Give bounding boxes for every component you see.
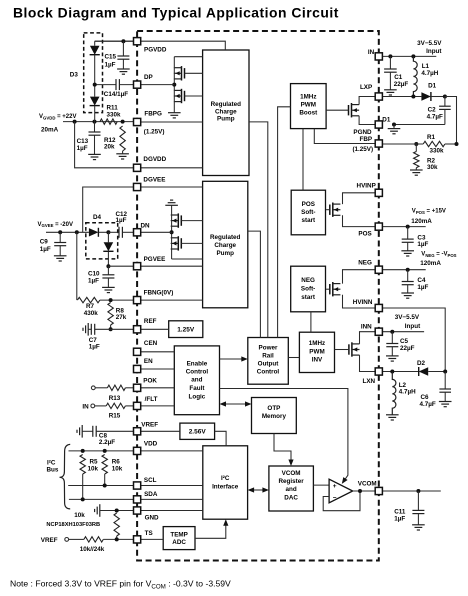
svg-text:VGVEE = -20V: VGVEE = -20V: [38, 222, 73, 228]
capacitor C4: [407, 270, 409, 282]
svg-text:CEN: CEN: [144, 340, 158, 347]
svg-text:Register: Register: [278, 478, 304, 485]
ground below C5: [386, 355, 399, 357]
wire FBPG pin to charge pump 1: [137, 121, 203, 123]
ground below L2: [386, 414, 399, 416]
transistor Q3 charge pump 2 upper FET: [177, 213, 179, 227]
node thermistor top: [115, 509, 119, 513]
svg-text:FBP: FBP: [359, 136, 372, 143]
wire HVINN to negative output: [379, 308, 445, 372]
svg-text:Interface: Interface: [212, 483, 239, 490]
wire Q6 source to POS: [343, 215, 379, 226]
wire Q8 source to LXN: [360, 355, 379, 371]
svg-text:120mA: 120mA: [420, 260, 441, 267]
capacitor C12 on DN line: [108, 231, 119, 233]
wire 2.56V reference to I2C interface: [215, 431, 227, 446]
node DN junction: [170, 230, 174, 234]
wire DP FET common rail: [173, 57, 175, 113]
wire VDD pin to I2C interface: [137, 450, 203, 452]
ground below C9: [54, 255, 67, 257]
svg-text:DGVDD: DGVDD: [143, 156, 166, 163]
svg-text:Pump: Pump: [217, 116, 235, 123]
svg-text:4.7µH: 4.7µH: [399, 388, 416, 395]
svg-text:start: start: [301, 294, 316, 301]
inductor L2: [392, 372, 396, 415]
wire VREF pin to 2.56V block: [137, 430, 180, 432]
wire power rail control to PWM INV: [288, 357, 299, 359]
pin GND: [134, 507, 141, 514]
node FBP-R1 junction: [414, 142, 418, 146]
svg-text:PGVEE: PGVEE: [144, 256, 166, 263]
svg-text:NEG: NEG: [301, 277, 315, 284]
svg-text:−: −: [333, 495, 337, 502]
svg-text:VREF: VREF: [41, 537, 58, 544]
diode D3a: [94, 41, 96, 46]
svg-text:VNEG = -VPOS: VNEG = -VPOS: [421, 252, 456, 258]
svg-text:SCL: SCL: [144, 477, 157, 484]
svg-text:DAC: DAC: [284, 494, 298, 501]
svg-text:D3: D3: [70, 72, 79, 79]
svg-text:Input: Input: [405, 323, 421, 330]
svg-text:30k: 30k: [427, 164, 438, 171]
svg-text:1µF: 1µF: [89, 343, 100, 350]
wire DGVDD pin to charge pump 1: [137, 167, 203, 169]
diode D1: [421, 92, 431, 100]
resistor R6 pull-up: [102, 455, 107, 475]
wire C2 bottom to PGND node: [394, 124, 445, 126]
svg-text:R1: R1: [427, 134, 436, 141]
svg-text:IN: IN: [368, 49, 375, 56]
block OTP Memory: [252, 398, 297, 434]
node C5 top: [390, 330, 394, 334]
svg-text:POS: POS: [358, 230, 371, 237]
wire enable logic to power rail control (arrow): [220, 358, 242, 360]
svg-text:4.7µF: 4.7µF: [420, 401, 436, 408]
pin /FLT: [134, 402, 141, 409]
wire INN rail: [379, 331, 424, 333]
svg-text:OTP: OTP: [267, 405, 280, 412]
wire VCOM output: [379, 490, 441, 492]
svg-text:3V−5.5V: 3V−5.5V: [417, 40, 442, 47]
pin VDD: [134, 447, 141, 454]
wire Q5 drain to LXP: [359, 97, 379, 105]
pin INN: [375, 328, 382, 335]
node D3 mid junction: [93, 83, 97, 87]
node L1 bottom junction: [411, 95, 415, 99]
diode D2 (points left): [419, 367, 429, 375]
svg-text:1µF: 1µF: [417, 241, 428, 248]
svg-text:EN: EN: [144, 358, 153, 365]
svg-text:PGVDD: PGVDD: [144, 46, 167, 53]
svg-text:20mA: 20mA: [41, 126, 59, 133]
block VCOM Register and DAC: [269, 466, 314, 511]
svg-text:NEG: NEG: [358, 259, 372, 266]
svg-text:1µF: 1µF: [394, 515, 405, 522]
wire NEG to Q7 drain: [343, 270, 379, 284]
wire VGVDD +22V rail: [63, 121, 137, 123]
svg-text:VCOM: VCOM: [282, 470, 301, 477]
capacitor C6: [444, 372, 446, 390]
svg-text:20k: 20k: [104, 143, 115, 150]
node R8 top: [109, 298, 113, 302]
node C10 junction: [106, 264, 110, 268]
svg-text:2.56V: 2.56V: [189, 429, 207, 436]
svg-text:PGND: PGND: [353, 129, 372, 136]
op-amp U2 VCOM amplifier: [329, 479, 353, 503]
svg-text:start: start: [301, 217, 316, 224]
wire LXP to D1: [379, 96, 422, 98]
svg-text:DGVEE: DGVEE: [143, 176, 165, 183]
node R1 right junction: [455, 142, 459, 146]
resistor R5 pull-up: [80, 455, 85, 475]
wire DGVEE wrap-around: [83, 187, 137, 232]
svg-text:1.25V: 1.25V: [177, 327, 195, 334]
capacitor C14 on DP line: [95, 84, 116, 86]
wire GND line with ground: [99, 504, 101, 517]
svg-text:(1.25V): (1.25V): [144, 129, 165, 136]
pin LXP: [375, 93, 382, 100]
capacitor C5: [391, 332, 393, 344]
pin HVINP: [375, 189, 382, 196]
node R8 bottom: [109, 327, 113, 331]
svg-text:1µF: 1µF: [105, 62, 116, 69]
transistor Q2 charge pump 1 lower FET: [181, 89, 183, 103]
svg-text:22µF: 22µF: [400, 345, 415, 352]
ground below Q2: [168, 112, 181, 114]
transistor Q1 charge pump 1 upper FET: [181, 66, 183, 80]
pin SDA: [134, 496, 141, 503]
node thermistor bottom: [115, 537, 119, 541]
svg-text:10k: 10k: [112, 466, 123, 473]
pin FBPG: [134, 118, 141, 125]
wire charge pump 2 output to power rail control: [248, 231, 261, 337]
resistor R16 10k//24k: [84, 537, 103, 542]
svg-text:3V−5.5V: 3V−5.5V: [395, 314, 420, 321]
svg-text:R5: R5: [90, 459, 99, 466]
wire IN rail: [379, 55, 437, 57]
wire R7 to FBNG pin: [100, 299, 137, 301]
svg-text:I²C: I²C: [221, 475, 230, 482]
block 1MHz PWM INV: [299, 332, 334, 372]
block regulated charge pump 2 (U1b): [203, 181, 248, 307]
svg-text:POS: POS: [302, 201, 315, 208]
svg-text:Regulated: Regulated: [211, 101, 242, 108]
node C13/D3 junction: [93, 120, 97, 124]
svg-text:VCOM: VCOM: [358, 481, 377, 488]
node C11 top: [416, 489, 420, 493]
diode D3b: [90, 97, 100, 106]
ground above Q3 (inverted): [165, 204, 178, 206]
pin DN: [134, 229, 141, 236]
svg-text:Rail: Rail: [262, 353, 274, 360]
svg-text:ADC: ADC: [172, 539, 186, 546]
svg-text:Memory: Memory: [262, 413, 287, 420]
svg-text:TS: TS: [145, 530, 153, 537]
svg-text:1µF: 1µF: [40, 246, 51, 253]
svg-text:4.7µF: 4.7µF: [427, 113, 443, 120]
pin DP: [134, 81, 141, 88]
svg-text:1MHz: 1MHz: [300, 93, 316, 100]
wire SDA pin to I2C interface: [137, 498, 203, 500]
svg-text:Soft-: Soft-: [301, 209, 315, 216]
wire Q7 source to HVINN: [343, 295, 379, 308]
capacitor C1: [388, 54, 392, 58]
svg-text:C15: C15: [105, 54, 117, 61]
svg-text:INV: INV: [312, 356, 323, 363]
node DGVDD branch: [73, 120, 77, 124]
pin SCL: [134, 482, 141, 489]
thermistor RT1 NCP18XH103F03RB: [114, 513, 119, 536]
svg-text:C9: C9: [40, 239, 49, 246]
diode D4b vertical: [107, 232, 109, 242]
ground below C1: [384, 89, 397, 91]
wire VCOM register to amplifier input: [313, 484, 329, 486]
pin VCOM: [375, 487, 382, 494]
wire CEN pin to enable logic: [137, 351, 174, 353]
pin PGVEE: [134, 263, 141, 270]
pin NEG: [375, 266, 382, 273]
svg-text:VPOS = +15V: VPOS = +15V: [412, 209, 446, 215]
pin DGVEE: [134, 183, 141, 190]
wire DP pin to FET node: [137, 84, 174, 86]
node DP junction: [172, 83, 176, 87]
svg-text:and: and: [191, 377, 202, 384]
pin POS: [375, 223, 382, 230]
svg-text:Pump: Pump: [216, 250, 234, 257]
wire PWM boost to power rail control: [278, 107, 291, 338]
svg-text:Output: Output: [258, 361, 280, 368]
wire OTP memory to VCOM register (arrow): [274, 434, 291, 462]
block Enable Control and Fault Logic: [174, 346, 219, 415]
svg-text:1µF: 1µF: [116, 217, 127, 224]
block Power Rail Output Control: [248, 338, 288, 385]
resistor R7: [76, 232, 78, 300]
svg-text:Charge: Charge: [214, 242, 236, 249]
wire INN to Q8 drain: [360, 332, 379, 344]
svg-text:DN: DN: [141, 223, 151, 230]
capacitor C11: [417, 491, 419, 510]
svg-text:/FLT: /FLT: [145, 396, 158, 403]
svg-text:22µF: 22µF: [394, 81, 409, 88]
capacitor C7 on REF line: [87, 323, 89, 336]
wire POS output: [379, 226, 426, 228]
node PGND junction: [392, 123, 396, 127]
node R5 bottom: [81, 497, 85, 501]
wire /FLT pin to enable logic: [137, 405, 174, 407]
ground below C10: [102, 286, 115, 288]
resistor R15: [106, 403, 125, 408]
wire VDD rail from brace: [69, 450, 138, 452]
svg-text:Fault: Fault: [189, 385, 205, 392]
svg-text:Note : Forced 3.3V to VREF pin: Note : Forced 3.3V to VREF pin for VCOM …: [10, 579, 231, 591]
svg-text:27k: 27k: [116, 314, 127, 321]
svg-text:4.7µH: 4.7µH: [421, 70, 438, 77]
wire SCL pin to I2C interface: [137, 485, 203, 487]
wire FBNG pin to charge pump 2: [137, 299, 203, 301]
svg-text:Control: Control: [257, 369, 280, 376]
wire FBP to divider: [379, 143, 423, 145]
svg-text:IN: IN: [82, 404, 89, 411]
pin REF: [134, 326, 141, 333]
svg-text:Charge: Charge: [215, 108, 237, 115]
block TEMP ADC: [163, 527, 195, 550]
wire boost to POS soft-start: [302, 129, 304, 191]
wire REF pin to 1.25V block: [137, 328, 169, 330]
svg-text:Control: Control: [186, 368, 209, 375]
svg-text:REF: REF: [144, 318, 157, 325]
terminal /FLT input: [91, 404, 95, 408]
wire boost to FBP pin: [314, 129, 379, 144]
wire PGVDD to charge pump 1 top: [95, 41, 226, 50]
capacitor C13: [94, 122, 96, 132]
resistor R13: [107, 385, 125, 390]
transistor Q4 charge pump 2 lower FET: [177, 236, 179, 250]
svg-text:NCP18XH103F03RB: NCP18XH103F03RB: [46, 522, 100, 528]
diode pair D3 dashed box: [84, 33, 103, 113]
svg-text:DP: DP: [144, 74, 153, 81]
node R12 top: [121, 120, 125, 124]
wire DN FET common rail: [171, 205, 173, 259]
wire charge pump 1 output to power rail control: [249, 122, 268, 338]
pin FBNG(0V): [134, 297, 141, 304]
ground at PGND: [393, 125, 395, 129]
terminal POK test point: [91, 386, 95, 390]
svg-text:10k//24k: 10k//24k: [80, 546, 105, 553]
svg-text:PWM: PWM: [301, 101, 316, 108]
pin FBP: [375, 140, 382, 147]
svg-text:D2: D2: [417, 360, 426, 367]
svg-text:D1: D1: [428, 83, 437, 90]
resistor R2: [415, 144, 417, 152]
svg-text:Boost: Boost: [299, 110, 318, 117]
svg-text:and: and: [285, 486, 296, 493]
pin PGND: [375, 121, 382, 128]
svg-text:330k: 330k: [107, 111, 122, 118]
wire SDA line: [69, 498, 137, 500]
node C4 top: [406, 268, 410, 272]
resistor R12: [120, 126, 125, 151]
pin DGVDD: [134, 164, 141, 171]
capacitor C3: [407, 227, 409, 240]
node L2 top: [390, 370, 394, 374]
svg-text:10k: 10k: [74, 512, 85, 519]
transistor Q6 POS switch: [332, 203, 334, 217]
node op-amp output junction: [358, 489, 362, 493]
svg-text:FBNG(0V): FBNG(0V): [144, 290, 174, 297]
ground below C3: [401, 250, 414, 252]
wire TS pin to TEMP ADC: [137, 538, 163, 540]
svg-text:FBPG: FBPG: [144, 111, 162, 118]
wire Q5 source to PGND: [359, 116, 379, 125]
svg-text:Bus: Bus: [47, 467, 59, 474]
pin CEN: [134, 348, 141, 355]
svg-text:TEMP: TEMP: [170, 532, 188, 539]
svg-text:+: +: [333, 483, 337, 490]
svg-text:2.2µF: 2.2µF: [99, 439, 115, 446]
svg-text:HVINN: HVINN: [353, 299, 373, 306]
block NEG Soft-start: [291, 266, 326, 312]
svg-text:C14/1µF: C14/1µF: [104, 91, 128, 98]
wire enable logic to OTP memory (double arrow): [225, 403, 247, 405]
wire enable logic to VCOM amplifier (arrow): [220, 389, 348, 483]
node D1 cathode junction: [443, 95, 447, 99]
wire D3 top to PGVDD: [95, 40, 137, 42]
svg-text:I²C: I²C: [47, 460, 56, 467]
node D2 anode junction: [443, 370, 447, 374]
ground below C13: [88, 153, 101, 155]
svg-text:VGVDD = +22V: VGVDD = +22V: [39, 114, 76, 120]
svg-text:GND: GND: [145, 515, 159, 522]
svg-text:1MHz: 1MHz: [309, 340, 325, 347]
svg-text:INN: INN: [361, 323, 372, 330]
block regulated charge pump 1 (U1a): [203, 50, 249, 176]
I2C bus brace: [60, 444, 71, 509]
terminal VREF input: [65, 538, 69, 542]
node R5 top: [81, 449, 85, 453]
ground below R2: [410, 169, 423, 171]
node D4 junction: [106, 230, 110, 234]
resistor R1: [423, 141, 445, 146]
resistor R11: [100, 119, 117, 124]
wire TEMP ADC to I2C interface (arrow): [195, 524, 226, 539]
wire PGVEE pin to charge pump 2: [137, 265, 203, 267]
pin VREF: [134, 428, 141, 435]
svg-text:POK: POK: [143, 377, 157, 384]
diode pair D4 dashed box: [86, 223, 118, 259]
node R7 branch: [75, 230, 79, 234]
capacitor C10: [107, 266, 109, 275]
wire NEG output: [379, 269, 426, 271]
pin HVINN: [375, 304, 382, 311]
ground below R12: [116, 153, 129, 155]
ground below C11: [412, 524, 425, 526]
svg-text:10k: 10k: [88, 466, 99, 473]
svg-text:SDA: SDA: [144, 491, 158, 498]
pin POK: [134, 384, 141, 391]
wire VGVEE -20V rail: [46, 231, 89, 233]
transistor Q5 boost switch: [351, 103, 353, 117]
pin PGVDD: [134, 38, 141, 45]
wire D4 node to PGVEE pin: [108, 265, 137, 267]
wire DN pin to FET node: [137, 231, 172, 233]
inductor L1: [411, 54, 415, 58]
wire I2C interface to VCOM register (double arrow): [254, 489, 263, 491]
svg-text:330k: 330k: [430, 147, 445, 154]
wire GND pin to I2C interface: [137, 510, 203, 512]
wire op-amp output to VCOM pin: [353, 490, 379, 492]
IC boundary dashed box: [137, 31, 379, 561]
wire DGVEE pin to charge pump 2: [137, 186, 203, 188]
node R6 top: [103, 449, 107, 453]
resistor R8: [108, 303, 113, 326]
svg-text:Block Diagram and Typical Appl: Block Diagram and Typical Application Ci…: [13, 5, 339, 21]
wire DGVDD wrap-around: [75, 122, 138, 168]
svg-text:1µF: 1µF: [417, 284, 428, 291]
wire D1 to output rail: [445, 97, 457, 145]
wire SCL line: [68, 485, 137, 487]
svg-text:430k: 430k: [84, 310, 99, 317]
wire POK pin to enable logic: [137, 387, 174, 389]
block I2C Interface: [203, 446, 248, 519]
pin TS: [134, 536, 141, 543]
svg-text:R15: R15: [109, 413, 121, 420]
svg-text:R13: R13: [109, 395, 121, 402]
wire HVINP to Q6 drain: [343, 193, 379, 204]
block 1.25V reference: [169, 321, 203, 338]
svg-text:VDD: VDD: [144, 441, 158, 448]
svg-text:Power: Power: [259, 345, 278, 352]
ground below C6: [439, 401, 452, 403]
